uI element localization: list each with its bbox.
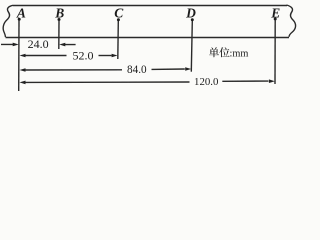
svg-text:A: A [16, 5, 26, 20]
svg-text:C: C [114, 5, 124, 20]
svg-text:D: D [185, 5, 196, 20]
svg-text:120.0: 120.0 [194, 76, 218, 88]
svg-text:24.0: 24.0 [28, 37, 49, 51]
svg-text:52.0: 52.0 [73, 48, 94, 62]
svg-text:84.0: 84.0 [127, 64, 147, 76]
svg-text::mm: :mm [230, 49, 249, 60]
